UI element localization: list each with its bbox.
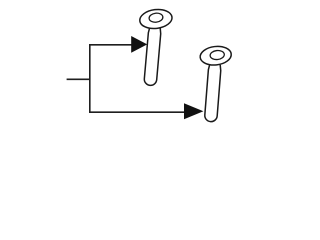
screw 2 head	[199, 45, 232, 67]
screw 2 (flat-head bolt, lower): shaft	[204, 64, 221, 122]
wire: top horizontal leader	[89, 44, 132, 46]
wire: left stub	[67, 78, 90, 80]
screw 1 (flat-head bolt, upper): shaft	[144, 27, 161, 86]
screw 1 head	[139, 8, 173, 31]
arrowhead to screw 2	[184, 103, 203, 119]
arrowhead to screw 1	[131, 36, 147, 53]
wire: bottom horizontal leader	[89, 111, 185, 113]
wire: vertical connector	[89, 44, 91, 113]
